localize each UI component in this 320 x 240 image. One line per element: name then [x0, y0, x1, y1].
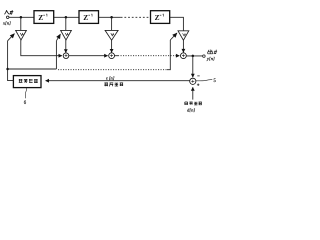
summing junction 3 — [181, 53, 187, 59]
wire summer2 to summer3 solid stub — [115, 55, 119, 57]
label 誤差信号 (error signal) — [104, 83, 123, 87]
wire tap3 down to multiplier 3 — [111, 17, 113, 30]
wire Z3 to multiplier 4 — [170, 17, 184, 30]
svg-text:ε [n]: ε [n] — [106, 75, 115, 80]
arrow into multiplier 1 — [8, 34, 15, 41]
wire dashed continuation to Z3 — [121, 16, 151, 18]
svg-text:Z: Z — [38, 13, 43, 22]
svg-text:x[n]: x[n] — [2, 21, 11, 26]
wire summer3 to output terminal — [186, 55, 202, 57]
coefficient mark in triangle 1 — [20, 33, 23, 36]
label plus sign at subtractor — [197, 84, 200, 87]
node output junction — [192, 55, 195, 58]
delay element Z^-1 box 1 — [34, 11, 54, 24]
node tap1 junction — [20, 16, 23, 19]
svg-text:d[n]: d[n] — [187, 108, 195, 113]
multiplier triangle 2 — [61, 30, 72, 40]
label 出力 (output) — [208, 50, 217, 55]
wire control bus solid segment — [8, 68, 57, 70]
summing junction 2 — [109, 53, 115, 59]
wire tap2 down to multiplier 2 — [65, 17, 67, 30]
delay element Z^-1 box 3 — [151, 11, 170, 24]
wire error signal line to coefficient update box — [46, 80, 190, 82]
label minus sign at subtractor — [197, 75, 199, 77]
wire multiplier1 output to adder chain — [21, 40, 62, 56]
wire target signal d[n] input from below — [192, 87, 194, 99]
wire multiplier2 output into summer 1 — [65, 40, 67, 53]
wire multiplier4 output into summer 3 — [182, 40, 184, 52]
multiplier triangle 3 — [105, 30, 118, 40]
wire control bus stub to multiplier 4 — [167, 40, 170, 70]
arrow into multiplier 4 — [170, 33, 177, 40]
output terminal y[n] — [203, 55, 206, 58]
svg-text:y[n]: y[n] — [206, 56, 215, 61]
subtractor circle — [190, 78, 196, 84]
summing junction 1 — [63, 53, 69, 59]
arrow into multiplier 2 — [56, 34, 60, 41]
label 入力 (input) — [5, 10, 14, 14]
wire multiplier3 output into summer 2 — [111, 40, 113, 52]
node tap2 junction — [65, 16, 68, 19]
label 目的信号 (target signal) — [185, 102, 202, 105]
wire control riser to multiplier 2 — [55, 41, 57, 69]
multiplier triangle 4 — [178, 31, 189, 40]
wire leader to reference numeral 6 — [25, 88, 26, 99]
wire Z2 output — [99, 16, 121, 18]
coefficient mark in triangle 2 — [65, 33, 68, 36]
wire output down into subtractor — [192, 56, 194, 77]
input terminal x[n] — [6, 16, 9, 19]
wire dashed continuation of adder chain — [118, 55, 175, 57]
coefficient update box — [13, 76, 41, 88]
svg-text:6: 6 — [24, 101, 27, 106]
svg-text:5: 5 — [214, 79, 217, 84]
coefficient mark in triangle 3 — [111, 33, 114, 36]
wire control line from update box up to multiplier 1 arrow — [8, 41, 14, 81]
wire Z1 to Z2 — [54, 16, 79, 18]
wire arrow into summer 3 — [175, 55, 179, 57]
wire input line to Z1 — [9, 16, 34, 18]
coefficient mark in triangle 4 — [183, 33, 186, 36]
wire control bus dashed segment — [58, 69, 167, 71]
svg-text:Z: Z — [83, 13, 88, 22]
svg-text:Z: Z — [155, 13, 160, 22]
wire tap1 down to multiplier 1 — [20, 17, 22, 30]
node control bus junction — [6, 68, 9, 71]
delay element Z^-1 box 2 — [79, 11, 99, 24]
label 係数更新 (coefficient update) in box — [19, 79, 38, 83]
multiplier triangle 1 — [16, 30, 27, 40]
wire leader to reference numeral 5 — [196, 80, 212, 81]
node tap3 junction — [110, 16, 113, 19]
wire summer1 to summer2 — [69, 55, 108, 57]
